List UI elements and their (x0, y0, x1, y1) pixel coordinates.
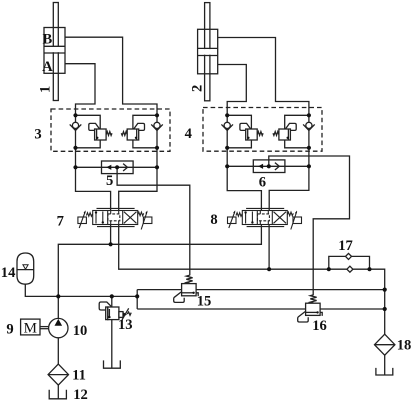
svg-text:M: M (24, 321, 37, 337)
svg-text:2: 2 (189, 85, 205, 92)
svg-text:6: 6 (259, 175, 266, 191)
svg-text:A: A (42, 59, 53, 75)
svg-text:12: 12 (73, 387, 88, 401)
svg-text:18: 18 (397, 337, 412, 353)
svg-text:3: 3 (34, 127, 41, 143)
svg-text:5: 5 (106, 173, 113, 189)
svg-text:11: 11 (72, 368, 86, 384)
svg-text:1: 1 (37, 86, 53, 93)
svg-text:10: 10 (73, 323, 88, 339)
svg-text:9: 9 (6, 322, 13, 338)
svg-text:7: 7 (57, 214, 64, 230)
svg-text:4: 4 (185, 126, 193, 142)
svg-text:B: B (43, 32, 53, 48)
svg-text:13: 13 (118, 317, 133, 333)
svg-text:14: 14 (1, 265, 16, 281)
svg-text:16: 16 (312, 318, 327, 334)
svg-text:15: 15 (197, 293, 212, 309)
svg-text:17: 17 (338, 238, 353, 254)
svg-text:8: 8 (210, 212, 217, 228)
